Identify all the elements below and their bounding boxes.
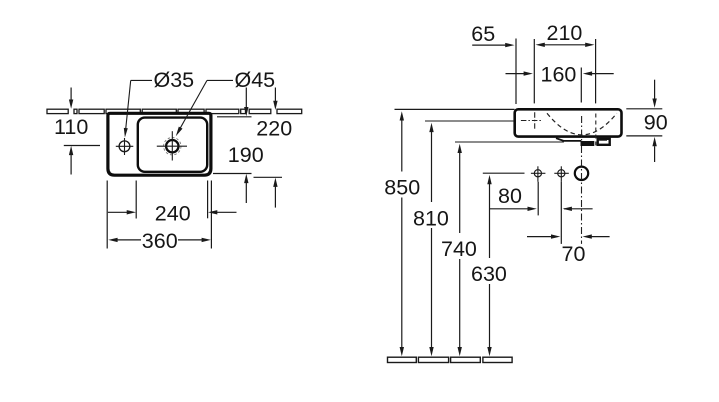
svg-text:360: 360 xyxy=(142,229,178,253)
svg-text:Ø45: Ø45 xyxy=(235,68,276,92)
svg-text:Ø35: Ø35 xyxy=(154,68,195,92)
svg-text:110: 110 xyxy=(54,115,88,139)
svg-text:80: 80 xyxy=(498,184,522,208)
svg-text:630: 630 xyxy=(471,262,507,286)
svg-text:210: 210 xyxy=(547,21,583,45)
svg-text:160: 160 xyxy=(541,63,577,87)
svg-text:240: 240 xyxy=(155,201,191,225)
svg-text:90: 90 xyxy=(644,111,668,135)
svg-text:220: 220 xyxy=(256,117,292,141)
svg-text:65: 65 xyxy=(471,22,495,46)
svg-text:850: 850 xyxy=(384,175,420,199)
svg-text:70: 70 xyxy=(562,242,586,266)
svg-text:740: 740 xyxy=(441,237,477,261)
svg-text:810: 810 xyxy=(413,206,449,230)
svg-text:190: 190 xyxy=(228,143,264,167)
